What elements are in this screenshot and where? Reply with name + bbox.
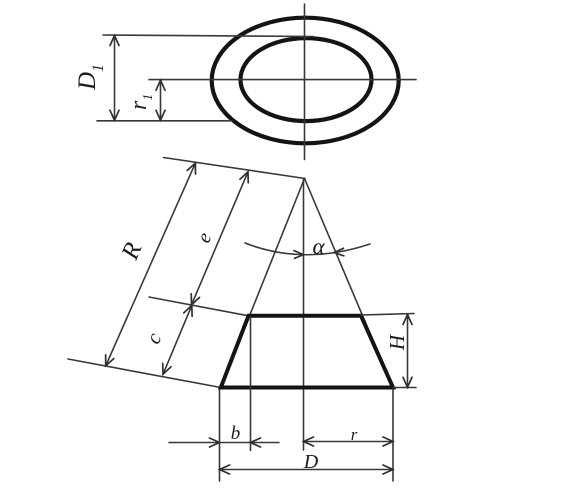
- bottom extension line (base level along slant): [68, 359, 221, 388]
- cone apex extension line: [164, 158, 306, 179]
- cone right edge (thin): [305, 179, 394, 388]
- alpha arc right arrowhead at right cone edge: [334, 248, 344, 256]
- svg-text:α: α: [312, 234, 325, 259]
- dimension line r1: [160, 80, 162, 120]
- svg-text:c: c: [141, 329, 167, 348]
- cone left edge (thin): [221, 179, 305, 388]
- dimension line R (full slant): [106, 163, 196, 366]
- dimension b right outside arrow: [251, 442, 280, 444]
- front view centerline: [303, 179, 305, 451]
- outer base circle (diameter D, top view): [212, 18, 399, 144]
- dimension line D1: [114, 36, 116, 121]
- svg-text:r1: r1: [126, 94, 156, 110]
- svg-text:b: b: [231, 423, 241, 444]
- left vertical extension line (base left corner): [219, 390, 221, 482]
- dimension b connecting segment: [220, 442, 251, 444]
- extension line, inner circle bottom tangent: [97, 120, 232, 122]
- frustum outline (bold trapezoid): [221, 316, 393, 388]
- dimension line e (apex to top edge along slant): [192, 172, 249, 305]
- extension line, inner circle top tangent: [103, 35, 313, 37]
- dimension line c (top edge to base along slant): [163, 305, 192, 374]
- svg-text:r: r: [351, 425, 358, 444]
- horizontal centerline (top view): [149, 79, 416, 81]
- svg-text:e: e: [193, 229, 217, 246]
- dimension line D: [220, 469, 394, 471]
- dimension b left outside arrow: [169, 442, 220, 444]
- middle extension line (top edge level along slant): [149, 297, 249, 316]
- H top extension line: [361, 314, 414, 316]
- svg-text:H: H: [385, 333, 409, 351]
- vertical extension line from top-left corner (for b): [250, 317, 252, 451]
- vertical centerline (top view): [304, 4, 306, 160]
- dimension line r: [304, 441, 394, 443]
- svg-text:D: D: [303, 451, 319, 473]
- right vertical extension line (base right corner): [392, 390, 394, 482]
- angle arc for alpha: [245, 243, 370, 255]
- H bottom extension line (base line extended right): [393, 387, 416, 389]
- dimension line H: [407, 315, 409, 388]
- svg-text:R: R: [116, 239, 147, 265]
- svg-text:D1: D1: [74, 64, 107, 91]
- inner top circle (diameter D1, top view): [241, 38, 372, 121]
- alpha arc left arrowhead at centerline: [294, 251, 304, 259]
